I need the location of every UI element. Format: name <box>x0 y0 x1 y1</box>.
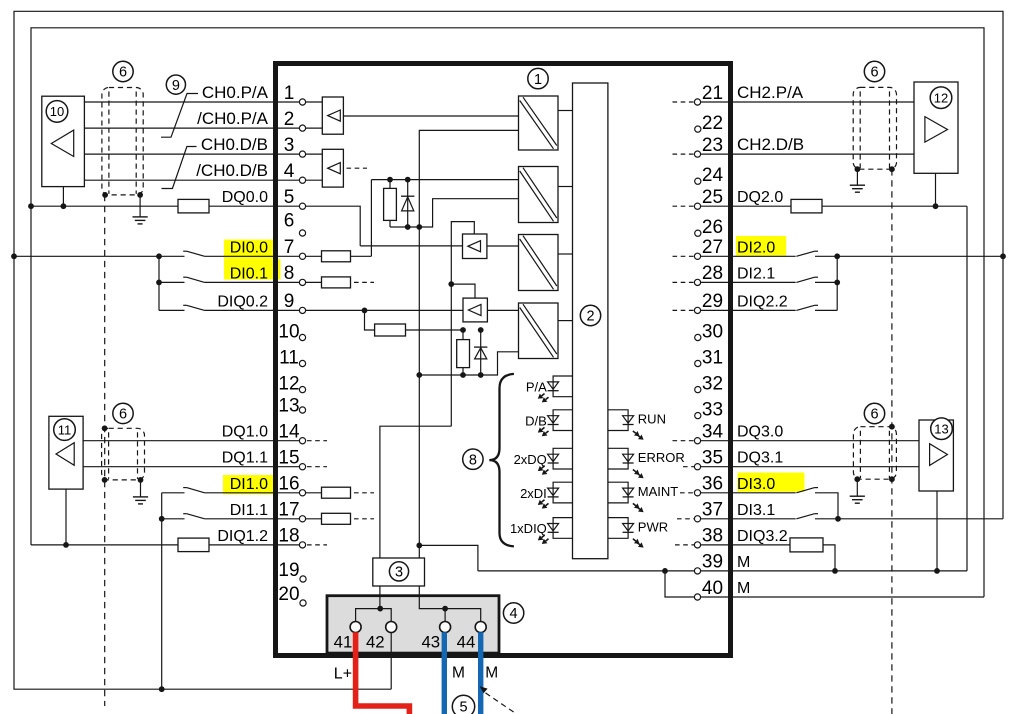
wire DI3.0 branch <box>815 493 838 519</box>
svg-text:DI3.1: DI3.1 <box>737 502 775 519</box>
svg-text:13: 13 <box>278 396 299 417</box>
terminal 13 <box>299 407 305 413</box>
wire isolation1 to interface <box>558 110 573 112</box>
wire top rail M/aux from left rail to right rail <box>31 28 984 597</box>
svg-text:DI1.0: DI1.0 <box>230 476 268 493</box>
svg-text:P/A: P/A <box>526 380 547 395</box>
label 6 lower-left <box>113 403 133 423</box>
terminal 28 <box>694 279 700 285</box>
wire U3 top pin to rail <box>451 222 474 427</box>
wire box10 to ground bus DQ0.0 <box>62 187 64 207</box>
svg-text:34: 34 <box>702 422 724 443</box>
wire switch common branch 2 <box>836 256 838 310</box>
wire DI1.1 to module <box>205 518 351 520</box>
junction shield <box>102 477 108 483</box>
junction L+ / DI2.0 <box>1000 253 1006 259</box>
resistor input DI0.1 <box>322 277 351 288</box>
svg-text:43: 43 <box>421 633 440 652</box>
junction M / box13 <box>934 568 940 574</box>
svg-text:MAINT: MAINT <box>638 484 679 499</box>
wire U4 input right <box>487 309 518 311</box>
wire isolation2 to interface <box>558 186 573 188</box>
svg-text:DIQ0.2: DIQ0.2 <box>217 293 268 310</box>
svg-text:32: 32 <box>702 374 723 395</box>
terminal 7 <box>299 253 305 259</box>
wire U4 top pin <box>451 284 475 298</box>
junction DI0.0 branch <box>156 253 162 259</box>
label 9 callout <box>166 75 185 94</box>
wire DI1.0 to module <box>205 492 351 494</box>
label 8 <box>463 449 483 469</box>
wire DI0.1 (terminal 8) <box>159 281 185 283</box>
junction L+ / DI0.0 <box>11 253 17 259</box>
wire terminal 44 feed <box>447 609 481 622</box>
highlight DI2.0 <box>736 236 786 256</box>
isolation barrier 2 <box>519 167 559 223</box>
terminal 10 <box>299 334 305 340</box>
label 2 <box>580 305 600 325</box>
junction clamp1 D top <box>405 177 411 183</box>
svg-text:CH2.D/B: CH2.D/B <box>737 135 804 154</box>
resistor input DI1.0 <box>322 487 351 498</box>
label 6 top-right <box>864 61 884 81</box>
wire DI0.0 (terminal 7) <box>14 255 185 257</box>
terminal 8 <box>299 279 305 285</box>
junction DI2.0 branch <box>834 253 840 259</box>
stub dashes DIQ2.2 <box>673 309 695 311</box>
terminal 27 <box>694 253 700 259</box>
junction DI2.1 branch <box>834 280 840 286</box>
net M internal branch <box>419 545 478 571</box>
svg-text:30: 30 <box>702 322 723 343</box>
svg-text:DQ1.1: DQ1.1 <box>222 450 268 467</box>
svg-text:DI1.1: DI1.1 <box>230 502 268 519</box>
svg-text:DIQ1.2: DIQ1.2 <box>217 528 268 545</box>
wire DI0.0 to module <box>205 255 372 257</box>
terminal 40 <box>694 594 700 600</box>
svg-text:DI0.1: DI0.1 <box>230 265 268 282</box>
wire DI2.0 to L+ loop <box>815 255 1003 257</box>
wire DIQ0.2 (terminal 9) <box>159 309 185 311</box>
wire isolation3 to interface <box>558 253 573 255</box>
resistor divider DIQ0.2 <box>375 324 463 336</box>
resistor clamp2 R <box>457 330 470 375</box>
svg-text:DQ3.1: DQ3.1 <box>737 450 783 467</box>
terminal 9 <box>299 307 305 313</box>
power unit box 3 <box>373 558 425 586</box>
isolation barrier 4 <box>519 303 559 359</box>
wire DIQ0.2 to module buffer <box>205 309 463 311</box>
junction DQ0.0 / box10 <box>61 203 67 209</box>
terminal 24 <box>695 178 701 184</box>
svg-text:DI0.0: DI0.0 <box>230 239 268 256</box>
resistor load DQ2.0 <box>791 199 822 213</box>
wire DI3.0 (terminal 36) <box>695 492 796 494</box>
resistor clamp1 R <box>384 180 397 227</box>
terminal 22 <box>695 126 701 132</box>
junction clamp1 D bottom <box>405 224 411 230</box>
LED MAINT <box>608 482 644 512</box>
svg-text:40: 40 <box>702 578 723 599</box>
label 6 lower-right <box>864 403 884 423</box>
wire clamp2 bottom rail <box>419 352 518 375</box>
svg-text:12: 12 <box>934 90 948 105</box>
resistor load DQ0.0 <box>178 199 209 213</box>
wire U1 output to isolation <box>343 115 518 117</box>
svg-text:1: 1 <box>284 83 295 104</box>
svg-text:6: 6 <box>119 65 127 81</box>
svg-text:15: 15 <box>278 448 299 469</box>
label 6 top-left <box>113 61 133 81</box>
wire DQ3.0 (terminal 34) <box>695 440 920 442</box>
svg-text:23: 23 <box>702 135 723 156</box>
svg-text:4: 4 <box>284 161 295 182</box>
wire U3 input right <box>487 245 519 247</box>
terminal 39 <box>694 568 700 574</box>
wire DQ3.1 (terminal 35) <box>695 466 920 468</box>
wire DQ1.1 (terminal 15) <box>83 466 306 468</box>
junction M / internal rail <box>416 543 422 549</box>
switch DIQ2.2 <box>796 305 818 310</box>
wire box13 to M line <box>936 491 938 571</box>
svg-text:6: 6 <box>119 407 127 423</box>
wire CH2.P/A (terminal 21) <box>695 101 915 103</box>
svg-text:8: 8 <box>469 452 477 468</box>
label 4 <box>503 603 523 623</box>
wire DQ1.0 (terminal 14) <box>83 440 306 442</box>
diode clamp1 D <box>401 180 414 227</box>
wire DI2.1 (terminal 28) <box>695 281 796 283</box>
LED RUN <box>608 410 644 440</box>
svg-text:29: 29 <box>702 291 723 312</box>
highlight DI3.0 <box>738 473 805 492</box>
ground (shield top right) <box>850 169 865 192</box>
terminal 30 <box>695 334 701 340</box>
svg-text:6: 6 <box>284 211 295 232</box>
junction U4 pin rail <box>448 281 454 287</box>
wire box11 to DIQ1.2 line <box>65 489 67 545</box>
wire DIQ3.2 (terminal 38) <box>695 545 836 571</box>
svg-text:10: 10 <box>50 104 64 119</box>
svg-text:39: 39 <box>702 552 723 573</box>
svg-text:18: 18 <box>278 526 299 547</box>
junction DIQ1.2 / box11 <box>63 542 69 548</box>
svg-text:6: 6 <box>870 65 878 81</box>
resistor input DI1.1 <box>322 513 351 524</box>
stub dashes DQ1.0 <box>307 440 327 442</box>
diode clamp2 D <box>474 330 487 375</box>
stub dashes DI3.0 <box>680 492 694 494</box>
svg-text:M: M <box>485 665 498 682</box>
wire isolation1 lower input to internal rail <box>419 130 518 558</box>
terminal 21 <box>694 99 700 105</box>
switch DI3.1 <box>796 514 818 519</box>
svg-text:6: 6 <box>870 407 878 423</box>
svg-text:ERROR: ERROR <box>638 450 685 465</box>
terminal 29 <box>694 307 700 313</box>
receiver box 12 <box>914 82 958 173</box>
svg-text:3: 3 <box>395 565 403 581</box>
wire buffer rail to box3 <box>380 426 451 558</box>
junction DI1.1 branch <box>159 516 165 522</box>
buffer U1 (CH0 P/A) <box>322 97 343 134</box>
terminal 1 <box>299 99 305 105</box>
wire terminal 41 feed <box>356 609 378 622</box>
buffer U3 (DI0 input) <box>463 234 487 259</box>
terminal 36 <box>694 490 700 496</box>
svg-text:13: 13 <box>934 421 948 436</box>
terminal 14 <box>299 438 305 444</box>
junction shield <box>889 166 895 172</box>
junction shield <box>855 166 861 172</box>
junction DIQ3.2 / M <box>832 568 838 574</box>
terminal 15 <box>299 464 305 470</box>
svg-text:7: 7 <box>284 237 295 258</box>
wire DIQ1.2 (terminal 18) <box>31 544 306 546</box>
terminal 19 <box>300 576 306 582</box>
junction clamp1 R top <box>387 177 393 183</box>
LED 2xDQ <box>538 448 573 474</box>
junction shield left <box>102 192 108 198</box>
svg-text:26: 26 <box>702 217 723 238</box>
junction shield <box>889 476 895 482</box>
terminal 3 <box>299 151 305 157</box>
label 1 <box>528 68 548 88</box>
stub dashes DQ1.1 <box>307 466 327 468</box>
wire terminal 42 to L+ net <box>390 632 392 689</box>
svg-text:DQ1.0: DQ1.0 <box>222 424 268 441</box>
wire DI1.1 (terminal 17) <box>162 518 185 520</box>
triangle symbol in box 11 <box>56 443 74 466</box>
svg-text:3: 3 <box>284 135 295 156</box>
junction 41/42 <box>377 606 383 612</box>
wire DQ2.0 (terminal 25) <box>695 205 968 207</box>
terminal 25 <box>694 203 700 209</box>
svg-text:12: 12 <box>278 374 299 395</box>
junction clamp2 R bottom <box>460 372 466 378</box>
junction DQ0.0 / top rail <box>28 203 34 209</box>
svg-text:RUN: RUN <box>638 412 666 427</box>
terminal box 4 (power terminals, gray) <box>327 596 499 653</box>
terminal 35 <box>694 464 700 470</box>
junction rail/clamp2 <box>416 372 422 378</box>
terminal 4 <box>299 177 305 183</box>
terminal 37 <box>694 516 700 522</box>
terminal 17 <box>299 516 305 522</box>
LED ERROR <box>608 448 644 478</box>
label 13 <box>931 418 953 440</box>
svg-text:2: 2 <box>284 109 295 130</box>
ground (shield lower left) <box>133 480 148 504</box>
svg-text:19: 19 <box>278 560 299 581</box>
wire DI0.1 to module <box>205 281 351 283</box>
svg-text:37: 37 <box>702 500 723 521</box>
wire clamp1 left leg <box>370 180 372 257</box>
wire CH2.D/B (terminal 23) <box>695 153 915 155</box>
switch DI2.1 <box>796 277 818 282</box>
wire L+ supply (red) <box>356 632 410 714</box>
wire /CH0.P/A (terminal 2) <box>84 127 322 129</box>
terminal 42 <box>386 622 397 633</box>
wire CH0.D/B (terminal 3) <box>84 153 322 155</box>
label 5 <box>452 695 474 714</box>
svg-text:41: 41 <box>334 633 353 652</box>
wire DI2.1 branch <box>815 281 837 283</box>
svg-text:2xDQ: 2xDQ <box>514 452 547 467</box>
switch DI3.0 <box>796 488 818 493</box>
wire isolation4 to interface <box>558 320 573 322</box>
svg-text:1xDIQ: 1xDIQ <box>510 521 547 536</box>
terminal 31 <box>695 360 701 366</box>
svg-text:DQ3.0: DQ3.0 <box>737 424 783 441</box>
svg-text:2: 2 <box>586 309 594 325</box>
triangle symbol in box 13 <box>930 444 948 466</box>
isolation barrier 1 <box>519 96 559 150</box>
svg-text:M: M <box>737 554 750 571</box>
triangle symbol in box 12 <box>925 117 948 143</box>
svg-text:D/B: D/B <box>525 413 547 428</box>
backplane interface 2 <box>573 83 608 559</box>
svg-text:21: 21 <box>702 83 723 104</box>
terminal 43 <box>440 622 451 633</box>
wire M supply 44 (blue) <box>478 632 483 714</box>
svg-text:17: 17 <box>278 500 299 521</box>
svg-text:DQ2.0: DQ2.0 <box>737 189 783 206</box>
svg-text:36: 36 <box>702 474 723 495</box>
wire switch common branch 1 <box>161 493 163 689</box>
svg-text:4: 4 <box>510 606 518 622</box>
brace for LED group 8 <box>489 374 514 547</box>
svg-text:1: 1 <box>534 72 542 88</box>
svg-text:5: 5 <box>284 187 295 208</box>
svg-text:M: M <box>452 665 465 682</box>
junction shield right <box>137 192 143 198</box>
highlight DI0.0 <box>224 240 273 260</box>
svg-text:16: 16 <box>278 474 299 495</box>
resistor load DIQ1.2 <box>178 538 209 552</box>
svg-text:DI2.1: DI2.1 <box>737 265 775 282</box>
wire CH0.P/A (terminal 1) <box>84 101 322 103</box>
junction DI3.0 / DI3.1 <box>835 516 841 522</box>
stub dashes DIQ1.2 <box>307 544 327 546</box>
svg-text:DI2.0: DI2.0 <box>737 239 775 256</box>
svg-text:M: M <box>737 580 750 597</box>
wire box3 right to terminal 43/44 <box>419 586 445 609</box>
svg-text:/CH0.P/A: /CH0.P/A <box>197 109 269 128</box>
switch DI0.0 <box>183 251 204 256</box>
wire DI3.1 to L+ loop <box>815 518 1003 520</box>
receiver box 13 <box>919 420 953 491</box>
wire terminal 42 feed <box>380 609 391 622</box>
LED PWR <box>608 518 644 548</box>
terminal 6 <box>299 230 305 236</box>
junction shield <box>889 424 895 430</box>
stub dashes DIQ3.2 <box>675 544 694 546</box>
stub dashes DQ3.1 <box>683 466 694 468</box>
svg-text:11: 11 <box>279 348 299 369</box>
svg-text:5: 5 <box>459 700 467 714</box>
terminal 33 <box>695 413 701 419</box>
LED D/B <box>538 410 573 436</box>
terminal 38 <box>694 542 700 548</box>
stub dashes DI0.1 <box>354 281 374 283</box>
wire DQ0.0 (terminal 5) <box>31 206 360 246</box>
junction M branch 40 <box>662 568 668 574</box>
switch DIQ0.2 <box>183 305 204 310</box>
wire clamp1 bottom rail <box>390 199 519 227</box>
wire terminal 43 feed <box>444 609 446 622</box>
wire DI1.0 (terminal 16) <box>162 492 185 494</box>
stub dashes DI3.1 <box>677 518 694 520</box>
LED 1xDIQ <box>538 518 573 544</box>
module enclosure (signal module) <box>276 64 731 656</box>
svg-text:22: 22 <box>702 113 723 134</box>
label 10 <box>46 101 68 123</box>
wire DIQ2.2 (terminal 29) <box>695 309 796 311</box>
wire U3 output left <box>360 245 462 247</box>
wire DI3.1 (terminal 37) <box>695 518 796 520</box>
terminal 11 <box>299 360 305 366</box>
svg-text:14: 14 <box>278 422 300 443</box>
switch DI0.1 <box>183 277 204 282</box>
svg-text:DIQ3.2: DIQ3.2 <box>737 528 788 545</box>
wire M (terminal 39) <box>478 570 967 572</box>
wire box12 to DQ2.0 line <box>935 173 937 206</box>
stub dashes DI1.0 <box>354 492 374 494</box>
driver box 10 <box>42 96 85 186</box>
terminal 41 <box>350 622 361 633</box>
terminal 5 <box>299 203 305 209</box>
junction DIQ0.2 divider <box>362 308 368 314</box>
switch DI1.1 <box>183 514 204 519</box>
isolation barrier 3 <box>519 235 559 291</box>
wire clamp2 top rail junctions <box>460 327 466 333</box>
buffer U4 (DIQ0 input) <box>463 298 487 322</box>
svg-text:44: 44 <box>457 633 476 652</box>
svg-text:CH2.P/A: CH2.P/A <box>737 83 804 102</box>
svg-text:28: 28 <box>702 263 723 284</box>
LED P/A <box>538 376 573 402</box>
leader 9 pair B <box>162 147 197 189</box>
svg-text:/CH0.D/B: /CH0.D/B <box>196 161 268 180</box>
leader 9 pair A <box>161 94 198 138</box>
stub dashes DQ3.0 <box>673 440 695 442</box>
svg-text:DI3.0: DI3.0 <box>737 476 775 493</box>
svg-text:PWR: PWR <box>638 520 668 535</box>
cable shield 6 (top left) <box>102 88 143 195</box>
stub dashes U2 <box>347 167 368 169</box>
resistor load DIQ3.2 <box>790 538 823 552</box>
switch DI2.0 <box>796 251 818 256</box>
wire clamp1 top rail <box>371 179 518 181</box>
svg-text:31: 31 <box>702 348 723 369</box>
stub dashes DI2.0 <box>673 255 695 257</box>
svg-text:20: 20 <box>278 584 299 605</box>
svg-text:9: 9 <box>172 78 180 94</box>
terminal 23 <box>694 151 700 157</box>
terminal 20 <box>300 600 306 606</box>
driver box 11 <box>49 416 83 489</box>
terminal 2 <box>299 125 305 131</box>
svg-text:25: 25 <box>702 187 723 208</box>
junction L+ bottom <box>159 686 165 692</box>
svg-text:10: 10 <box>278 322 299 343</box>
arrow to M reference <box>480 686 517 714</box>
wire M (terminal 40) <box>665 571 984 597</box>
label 3 <box>389 562 408 581</box>
shield drain dashed wire left <box>104 195 106 706</box>
wire DI2.0 (terminal 27) <box>695 255 796 257</box>
